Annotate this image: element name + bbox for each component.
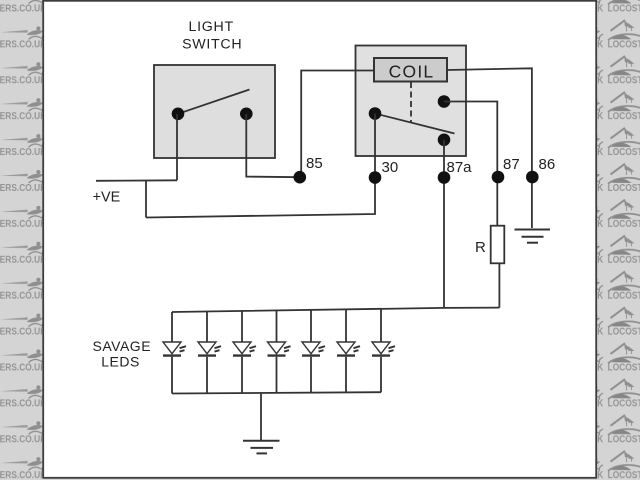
LED D7 [372,309,395,393]
LED D4 [268,310,291,393]
svg-text:87a: 87a [447,159,473,176]
terminal dot 85 [294,171,307,184]
svg-text:COIL: COIL [389,61,435,81]
svg-text:86: 86 [539,156,556,173]
svg-text:LEDS: LEDS [101,354,140,370]
label SAVAGE LEDS [93,338,152,370]
relay common dot [369,107,382,120]
terminal dot 30 [369,171,382,184]
terminal dot 87a [438,171,451,184]
terminal dot 86 [526,171,539,184]
LED top bus [172,308,499,312]
relay armature [375,114,455,134]
svg-text:+VE: +VE [93,190,121,206]
wire switch pole down [176,114,178,180]
svg-text:R: R [475,239,486,256]
relay 87 contact dot [438,95,451,108]
LED D5 [302,310,325,393]
label LIGHT SWITCH [182,19,242,53]
relay box [356,46,467,157]
relay dashed link [410,82,412,123]
wire ground stem [260,393,262,440]
wire resistor down [498,263,500,307]
switch pole dot [172,108,185,121]
svg-text:85: 85 [306,155,323,172]
svg-text:30: 30 [382,159,399,176]
svg-text:SWITCH: SWITCH [182,37,242,53]
LED D1 [163,312,186,394]
light switch box [154,65,275,158]
switch lever [178,90,250,114]
svg-text:LIGHT: LIGHT [189,19,234,35]
wire 87 contact out [444,102,497,178]
LED D2 [198,312,221,394]
LED bottom bus [172,392,381,393]
ground LEDs [243,441,280,454]
LED D6 [337,309,360,392]
wire 87a down [443,140,445,308]
wire drop to feed bus [145,181,147,218]
relay 87a contact dot [438,134,451,147]
coil box [374,58,447,82]
wire coil to 86 [447,68,532,228]
svg-text:87: 87 [503,156,520,173]
svg-text:SAVAGE: SAVAGE [93,338,152,354]
wire 87 to resistor [496,177,498,226]
LED D3 [233,311,256,393]
wire switch throw to 85 [246,114,299,177]
ground 86 [515,230,551,243]
wire 85 to coil [301,71,374,175]
terminal dot 87 [492,171,505,184]
switch throw dot [240,108,253,121]
wire feed bus to 30 [146,178,375,218]
resistor R [491,226,505,264]
wire relay common down [374,114,376,178]
wire +VE feed [96,179,177,182]
